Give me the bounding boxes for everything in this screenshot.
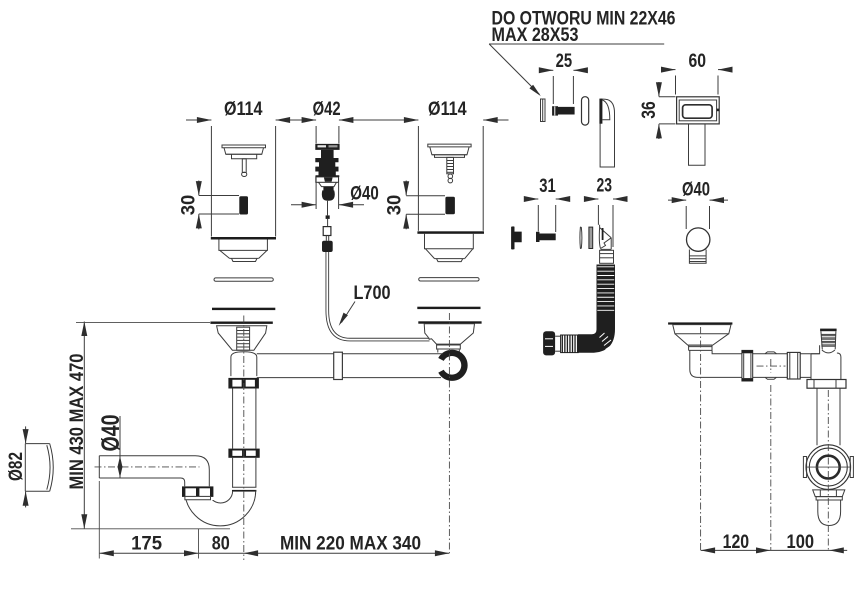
br valve side tabs bbox=[803, 457, 806, 478]
right strainer centerline bbox=[448, 313, 450, 553]
ring circle bbox=[687, 228, 710, 251]
oe82 dim bbox=[25, 426, 27, 443]
top pipe bbox=[257, 353, 443, 355]
svg-text:MAX 28X53: MAX 28X53 bbox=[492, 25, 579, 46]
thin washer bbox=[580, 227, 582, 248]
knob bottom blob bbox=[322, 187, 335, 201]
leader line under text bbox=[489, 43, 664, 45]
right strainer underside bbox=[425, 234, 474, 249]
svg-text:30: 30 bbox=[385, 195, 406, 216]
left mounting line (thick) bbox=[210, 322, 272, 324]
U-bend nut skirt bbox=[185, 497, 211, 500]
30 dim right bbox=[405, 181, 407, 196]
right strainer stem threaded bbox=[447, 157, 454, 173]
cable fitting below knob bbox=[327, 201, 329, 216]
svg-text:31: 31 bbox=[539, 176, 556, 197]
extension lines bbox=[210, 126, 212, 237]
hose top elbow piece bbox=[599, 225, 611, 250]
corrugated hose bbox=[578, 265, 615, 353]
left trap nut 1 (bold) bbox=[228, 378, 259, 389]
ring lower cylinder bbox=[689, 250, 706, 264]
knob body black stack bbox=[315, 150, 339, 177]
right mounting line (thick) bbox=[418, 321, 481, 323]
right thick line 2 bbox=[417, 307, 480, 309]
left strainer top flange bbox=[222, 145, 266, 148]
riser to U-bend bbox=[232, 458, 234, 488]
br lower nut bbox=[807, 380, 846, 389]
left thick line 2 bbox=[212, 308, 275, 310]
br valve lower nut bbox=[813, 490, 845, 497]
left riser nut 2 (bold) bbox=[228, 449, 259, 458]
right outlet stub bbox=[437, 350, 439, 353]
dimension line row y120 bbox=[186, 119, 211, 121]
br dim row bbox=[701, 549, 848, 551]
right plug (black) bbox=[445, 197, 455, 215]
left sink line (thick) bbox=[211, 237, 276, 240]
br valve body bbox=[811, 345, 841, 379]
br nut2 bbox=[787, 352, 800, 379]
svg-text:MIN 430 MAX 470: MIN 430 MAX 470 bbox=[67, 354, 88, 490]
br funnel bbox=[673, 325, 731, 334]
oe82 cap piece bbox=[25, 444, 49, 492]
svg-text:25: 25 bbox=[556, 51, 573, 72]
pushbutton piece bbox=[511, 226, 522, 249]
min430 dim bbox=[83, 322, 85, 529]
br pipe to valve bbox=[816, 388, 818, 445]
svg-text:Ø40: Ø40 bbox=[682, 180, 710, 201]
screw bbox=[552, 106, 558, 115]
br funnel band bbox=[688, 345, 712, 350]
outlet pipe horizontal bbox=[98, 456, 100, 478]
overflow tailpipe bbox=[689, 124, 706, 165]
pipe centerline dash-dot bbox=[95, 466, 200, 468]
right strainer top flange bbox=[428, 144, 471, 147]
svg-text:120: 120 bbox=[723, 532, 750, 553]
svg-text:Ø42: Ø42 bbox=[313, 99, 341, 120]
screw washer plate bbox=[541, 99, 546, 122]
br center cross bbox=[757, 365, 786, 367]
riser joint lines bbox=[232, 486, 256, 488]
right lower trapezoid bbox=[424, 324, 474, 344]
br barb bbox=[820, 329, 837, 332]
horizontal ribbed section bbox=[561, 335, 579, 353]
svg-text:100: 100 bbox=[787, 532, 815, 553]
br inlet elbow bbox=[690, 350, 811, 377]
top pipe coupling bbox=[334, 352, 343, 379]
left strainer screw stem bbox=[242, 159, 246, 173]
hose end nut bbox=[543, 331, 555, 355]
svg-text:Ø114: Ø114 bbox=[428, 99, 467, 120]
br nut1 bbox=[742, 350, 753, 381]
br valve circles bbox=[806, 445, 851, 490]
U-bend nut (bold) bbox=[181, 486, 214, 500]
left threaded stem bbox=[237, 327, 250, 350]
U-bend arcs bbox=[185, 491, 256, 526]
br outlet tube bbox=[818, 500, 841, 526]
svg-text:L700: L700 bbox=[354, 283, 391, 304]
br sink line (thick) bbox=[668, 322, 732, 324]
left riser pipe bbox=[232, 389, 234, 449]
svg-text:30: 30 bbox=[178, 195, 199, 216]
knob lower cone bbox=[319, 182, 337, 186]
br centerlines bbox=[700, 327, 702, 550]
knob cap bbox=[315, 144, 339, 150]
svg-text:Ø82: Ø82 bbox=[6, 452, 27, 481]
overflow box bbox=[677, 97, 720, 124]
left gasket bbox=[214, 278, 273, 281]
knob white band bbox=[316, 177, 339, 182]
svg-text:Ø114: Ø114 bbox=[224, 99, 263, 120]
hose nut white bbox=[600, 250, 614, 263]
left bell/socket bbox=[231, 352, 257, 376]
svg-text:36: 36 bbox=[639, 101, 660, 119]
screw 31 bbox=[536, 232, 540, 242]
left strainer underside bbox=[219, 240, 268, 251]
right band bbox=[436, 344, 460, 349]
svg-text:175: 175 bbox=[131, 534, 162, 555]
svg-text:Ø40: Ø40 bbox=[97, 415, 125, 452]
30 dim left bbox=[198, 181, 200, 196]
right elbow black donut bbox=[436, 350, 467, 381]
left plug (black) bbox=[239, 196, 248, 214]
svg-text:80: 80 bbox=[212, 534, 230, 555]
gray washer bbox=[589, 227, 593, 248]
left lower drain trapezoid bbox=[217, 326, 267, 350]
curved cover bbox=[600, 99, 614, 167]
bottom dim row bbox=[99, 552, 449, 554]
riser centerline bbox=[243, 316, 245, 561]
br coupling bumps bbox=[765, 352, 776, 354]
oval gasket bbox=[582, 97, 589, 125]
svg-text:60: 60 bbox=[689, 51, 707, 72]
right sink line (thick) bbox=[417, 231, 484, 234]
svg-text:23: 23 bbox=[597, 176, 613, 197]
svg-text:Ø40: Ø40 bbox=[350, 184, 379, 205]
right gasket bbox=[419, 278, 479, 281]
svg-text:MIN 220 MAX 340: MIN 220 MAX 340 bbox=[280, 534, 421, 555]
cable double line bbox=[327, 252, 429, 340]
